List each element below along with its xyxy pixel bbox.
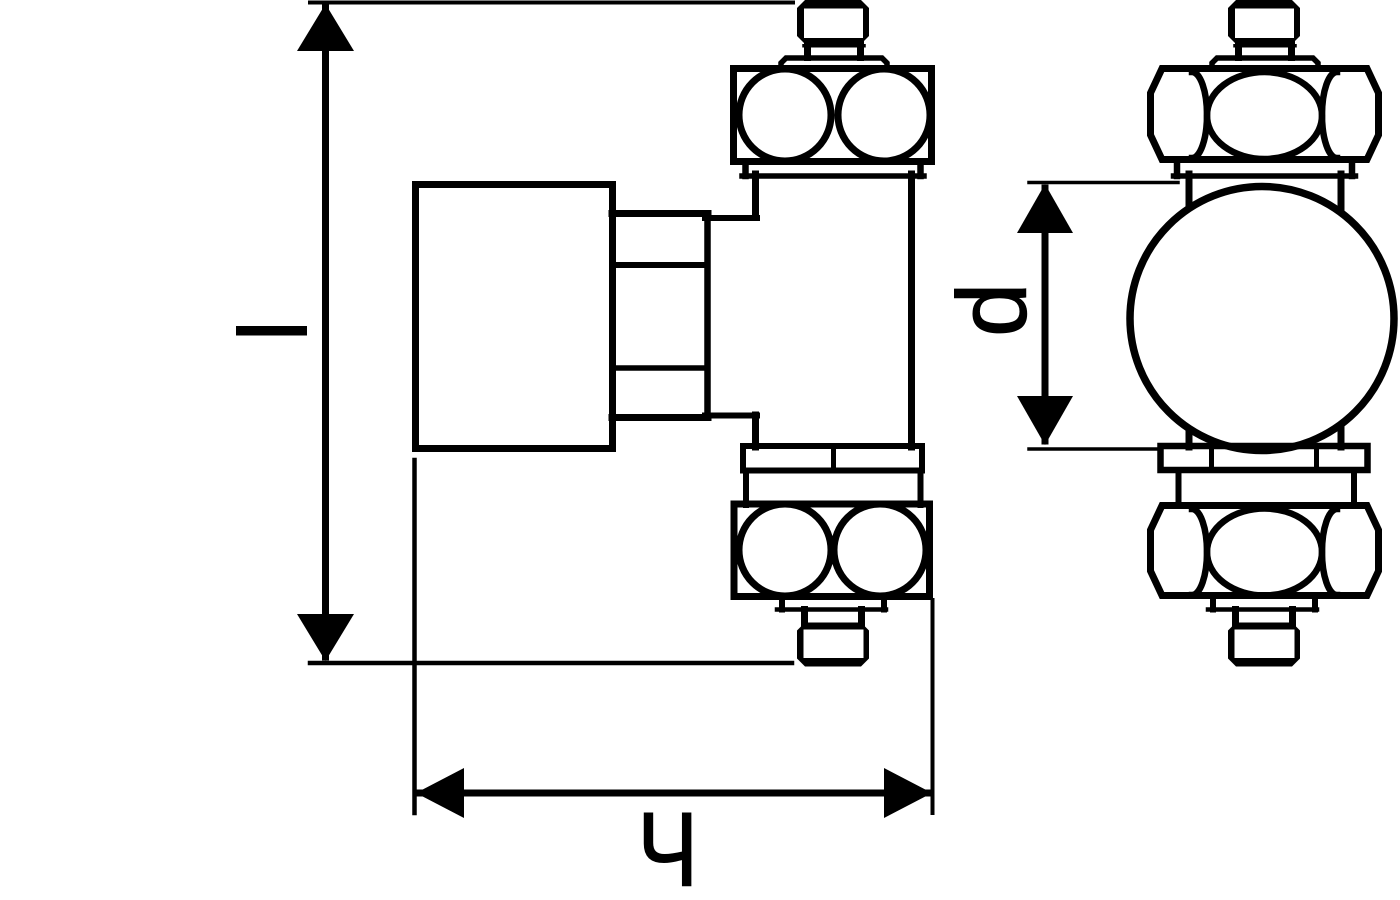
top nut right facet circle <box>838 69 930 161</box>
top collar (right) <box>1212 58 1318 67</box>
dimension ch: right extension line <box>931 600 935 813</box>
top stem neck line (right) <box>1235 44 1295 48</box>
top union nut (left view) <box>734 69 932 162</box>
top stem neck sides <box>804 43 811 58</box>
top hex nut (right view, across flats) <box>1151 69 1379 160</box>
bottom hex nut (right view) <box>1151 506 1379 596</box>
dimension l: bottom extension line <box>310 661 792 666</box>
dimension l: top extension line <box>310 1 793 5</box>
top stem cap (left view) <box>797 0 869 44</box>
dimension l: dimension line <box>322 8 329 657</box>
dimension l: bottom arrowhead <box>297 614 354 661</box>
branch end face vertical <box>704 214 711 418</box>
dimension d: dimension line <box>1042 188 1049 441</box>
bottom stem cap (right view) <box>1228 623 1300 667</box>
body right edge <box>908 174 915 447</box>
top collar <box>781 58 887 67</box>
branch bottom edge <box>612 414 708 421</box>
bottom hex nut left facet curve <box>1192 509 1207 595</box>
top hex nut right facet curve <box>1322 72 1337 158</box>
bottom seat band2 sides <box>743 471 749 506</box>
bottom seat band1 (left view) <box>743 446 922 471</box>
bottom collar (right) <box>1210 597 1216 610</box>
dimension d: top arrowhead <box>1017 184 1073 233</box>
branch inner line lower <box>616 365 704 371</box>
dimension ch: left arrowhead <box>416 768 464 818</box>
branch pipe bottom edge <box>705 413 757 419</box>
bottom collar <box>779 597 785 610</box>
branch pipe top edge <box>705 215 757 221</box>
bottom nut right facet circle <box>834 504 926 596</box>
bottom stem neck sides <box>801 610 808 625</box>
body side edges (right view, behind sphere) <box>1186 174 1193 447</box>
dimension ch: dimension line <box>420 790 928 797</box>
dimension d: bottom extension line <box>1029 447 1160 451</box>
bottom seat band1 divider <box>831 446 836 471</box>
branch top edge <box>612 210 708 217</box>
bottom seat band2 sides (right) <box>1176 470 1182 506</box>
top hex nut left facet curve <box>1192 72 1207 158</box>
bottom nut left facet circle <box>739 504 831 596</box>
body left edge lower segment <box>752 415 759 447</box>
svg-text:Ч: Ч <box>637 791 698 900</box>
top hex nut middle facet ellipse <box>1207 72 1322 159</box>
sphere outline (right view) <box>1130 187 1394 451</box>
top band below nut (right) <box>1174 163 1181 176</box>
dimension ch: left extension line <box>412 460 417 813</box>
dimension l: top arrowhead <box>297 4 354 51</box>
bottom hex nut right facet curve <box>1322 509 1337 595</box>
bottom seat band1 dividers (right) <box>1209 446 1214 470</box>
top band below nut <box>742 163 749 176</box>
bottom hex nut middle facet ellipse <box>1207 509 1322 596</box>
dimension d: top extension line <box>1029 181 1178 185</box>
dimension d: bottom arrowhead <box>1017 396 1073 445</box>
label l (rotated lowercase l = bar) <box>236 326 307 336</box>
top nut left facet circle <box>739 69 831 161</box>
bottom stem neck sides (right) <box>1232 610 1239 625</box>
top stem cap (right view) <box>1228 0 1300 44</box>
bottom seat band1 (right view) <box>1161 446 1368 470</box>
bottom stem cap (left view) <box>797 623 869 667</box>
body left edge upper segment <box>752 174 759 216</box>
top stem neck line <box>804 44 864 48</box>
branch inner line upper <box>616 262 704 268</box>
bottom union nut (left view) <box>734 504 930 597</box>
dimension ch: right arrowhead <box>884 768 932 818</box>
svg-text:d: d <box>937 282 1047 337</box>
actuator box <box>416 185 613 449</box>
top stem neck sides (right) <box>1235 43 1242 58</box>
